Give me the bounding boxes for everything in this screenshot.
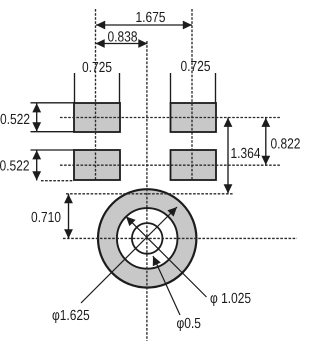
centerline left column vertical bbox=[95, 9, 97, 180]
dimension line 0.522 upper bbox=[36, 103, 38, 132]
label 0.725 right bbox=[181, 61, 210, 71]
extension line 0.522 lower bbox=[31, 149, 75, 151]
centerline circle horizontal bbox=[63, 237, 297, 239]
extension lines 0.725 right bbox=[170, 73, 172, 103]
label phi1.025 bbox=[211, 293, 251, 306]
centerline right column vertical bbox=[191, 9, 193, 180]
centerline top pad row horizontal bbox=[60, 117, 280, 119]
dimension line 1.364 bbox=[227, 118, 229, 194]
label 1.675 bbox=[136, 12, 165, 22]
ring inner circle bbox=[117, 208, 178, 269]
circular pad outer ring bbox=[98, 189, 196, 287]
label 0.725 left bbox=[83, 62, 112, 72]
leader phi0.5 bbox=[153, 256, 180, 315]
dimension line 0.822 bbox=[265, 118, 267, 166]
extension lines 0.725 left bbox=[74, 73, 76, 104]
centerline middle vertical bbox=[146, 41, 148, 341]
dimension line 1.675 bbox=[96, 24, 192, 26]
leader phi1.025 bbox=[126, 217, 207, 298]
label 0.838 bbox=[108, 31, 137, 41]
dimension line 0.838 bbox=[96, 43, 148, 45]
centerline bottom pad row horizontal bbox=[60, 164, 280, 166]
dashed line at circle top (0.710 / 1.364 datum) bbox=[66, 193, 234, 195]
label 0.522 lower bbox=[0, 160, 29, 170]
label 0.710 bbox=[32, 212, 61, 222]
label 0.822 bbox=[271, 138, 300, 148]
pad top-left bbox=[74, 103, 120, 132]
label phi1.625 bbox=[53, 310, 90, 323]
label phi0.5 bbox=[177, 318, 200, 331]
label 0.522 upper bbox=[1, 114, 30, 124]
dimension line 0.710 bbox=[68, 194, 70, 239]
dimension line 0.522 lower bbox=[36, 150, 38, 181]
pad bottom-right bbox=[171, 150, 217, 180]
label 1.364 bbox=[231, 148, 260, 158]
extension lines 0.522 upper bbox=[31, 102, 75, 104]
dashed extension at bottom pad lower edge bbox=[41, 180, 74, 182]
pad top-right bbox=[171, 103, 217, 132]
leader phi1.625 bbox=[81, 207, 177, 303]
pad bottom-left bbox=[74, 150, 120, 180]
center hole circle bbox=[132, 223, 163, 254]
